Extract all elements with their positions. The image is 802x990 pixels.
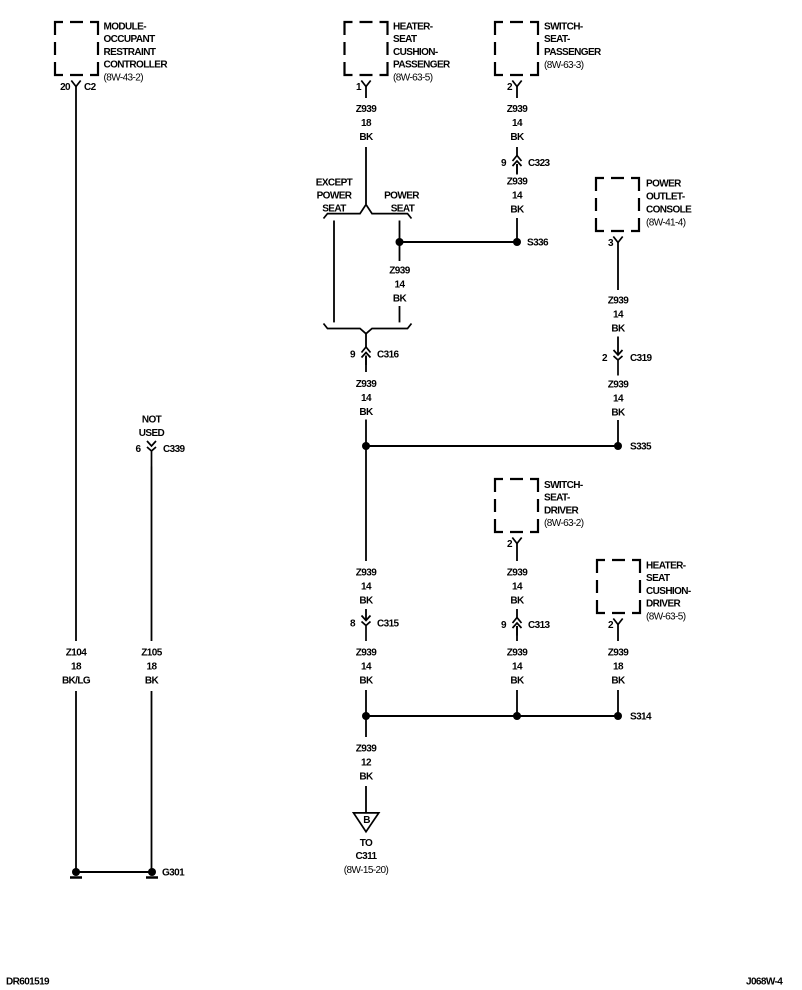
svg-text:S335: S335 xyxy=(630,442,652,453)
svg-text:18: 18 xyxy=(71,662,82,673)
wire xyxy=(516,690,518,716)
wire left branch xyxy=(333,221,335,323)
svg-text:Z939: Z939 xyxy=(356,568,377,579)
off-page connector triangle B xyxy=(354,813,379,832)
svg-text:USED: USED xyxy=(139,428,165,439)
svg-text:S314: S314 xyxy=(630,712,652,723)
svg-text:C319: C319 xyxy=(630,353,653,364)
wire xyxy=(516,609,518,618)
module - occupant restraint controller box xyxy=(55,22,98,75)
svg-text:CUSHION-: CUSHION- xyxy=(393,47,438,58)
svg-text:B: B xyxy=(363,815,370,826)
svg-text:PASSENGER: PASSENGER xyxy=(393,60,451,71)
svg-text:BK: BK xyxy=(510,132,525,143)
svg-text:HEATER-: HEATER- xyxy=(646,561,686,572)
connector C2 pin 20 xyxy=(71,81,80,87)
svg-text:(8W-15-20): (8W-15-20) xyxy=(344,865,389,876)
branch brace bottom xyxy=(324,324,412,334)
wire S314 horizontal xyxy=(366,715,618,717)
wire xyxy=(365,786,367,812)
svg-text:RESTRAINT: RESTRAINT xyxy=(104,47,156,58)
wire xyxy=(365,420,367,447)
svg-text:14: 14 xyxy=(613,310,624,321)
wire S336 horizontal xyxy=(400,241,518,243)
wire S335 horizontal xyxy=(366,445,618,447)
svg-text:Z939: Z939 xyxy=(356,104,377,115)
svg-text:C311: C311 xyxy=(356,851,378,862)
svg-text:BK: BK xyxy=(510,205,525,216)
svg-text:DR601519: DR601519 xyxy=(6,977,50,988)
connector C319 pin 2 xyxy=(614,350,623,376)
wire xyxy=(365,609,367,621)
svg-text:TO: TO xyxy=(360,838,373,849)
svg-text:18: 18 xyxy=(147,662,158,673)
branch brace top xyxy=(324,205,412,219)
svg-text:BK: BK xyxy=(393,294,408,305)
wire Z939 18 BK from heater passenger xyxy=(365,87,367,99)
svg-text:Z939: Z939 xyxy=(507,568,528,579)
svg-text:BK: BK xyxy=(359,772,374,783)
wire Z105 upper segment xyxy=(151,467,153,642)
svg-text:POWER: POWER xyxy=(317,191,353,202)
wire Z939 14 BK from switch driver xyxy=(516,544,518,562)
svg-text:BK: BK xyxy=(510,596,525,607)
svg-text:G301: G301 xyxy=(162,868,185,879)
svg-text:Z939: Z939 xyxy=(507,104,528,115)
wire xyxy=(399,306,401,322)
heater-seat cushion-passenger box xyxy=(345,22,388,75)
connector C339 pin 6 (not used) xyxy=(147,441,156,467)
svg-text:BK/LG: BK/LG xyxy=(62,676,91,687)
wire right branch below dot xyxy=(399,242,401,261)
svg-text:14: 14 xyxy=(361,393,372,404)
switch-seat-driver pin 2 xyxy=(512,538,521,544)
svg-text:SEAT-: SEAT- xyxy=(544,493,570,504)
svg-text:BK: BK xyxy=(611,676,626,687)
wire xyxy=(365,147,367,204)
wire Z939 18 BK from heater driver xyxy=(617,625,619,642)
svg-text:18: 18 xyxy=(613,662,624,673)
svg-text:Z939: Z939 xyxy=(608,380,629,391)
svg-text:Z939: Z939 xyxy=(356,379,377,390)
svg-text:CONTROLLER: CONTROLLER xyxy=(104,60,169,71)
svg-text:BK: BK xyxy=(145,676,160,687)
svg-text:Z939: Z939 xyxy=(608,296,629,307)
wire xyxy=(516,218,518,242)
wire Z104 lower segment xyxy=(75,691,77,872)
junction dot left S335 xyxy=(362,442,370,450)
svg-text:OUTLET-: OUTLET- xyxy=(646,192,685,203)
svg-text:BK: BK xyxy=(359,676,374,687)
svg-text:14: 14 xyxy=(361,582,372,593)
svg-text:POWER: POWER xyxy=(384,191,420,202)
wire xyxy=(617,690,619,716)
svg-text:14: 14 xyxy=(512,118,523,129)
svg-text:POWER: POWER xyxy=(646,179,682,190)
junction dot power seat branch xyxy=(396,238,404,246)
splice S335 xyxy=(614,442,622,450)
svg-text:BK: BK xyxy=(510,676,525,687)
svg-text:C313: C313 xyxy=(528,620,551,631)
svg-text:BK: BK xyxy=(611,324,626,335)
svg-text:DRIVER: DRIVER xyxy=(544,505,580,516)
svg-text:MODULE-: MODULE- xyxy=(104,22,147,33)
svg-text:(8W-43-2): (8W-43-2) xyxy=(104,73,144,84)
wire ground horizontal xyxy=(76,871,152,873)
svg-text:SWITCH-: SWITCH- xyxy=(544,480,583,491)
svg-text:J068W-4: J068W-4 xyxy=(746,977,783,988)
svg-text:14: 14 xyxy=(512,662,523,673)
power outlet-console box xyxy=(596,178,639,231)
svg-text:14: 14 xyxy=(361,662,372,673)
svg-text:BK: BK xyxy=(359,132,374,143)
svg-text:14: 14 xyxy=(395,280,406,291)
svg-text:Z939: Z939 xyxy=(356,744,377,755)
svg-text:(8W-63-3): (8W-63-3) xyxy=(544,60,584,71)
svg-text:SEAT-: SEAT- xyxy=(544,34,570,45)
svg-text:(8W-63-5): (8W-63-5) xyxy=(393,73,433,84)
svg-text:C2: C2 xyxy=(84,82,97,93)
heater-seat cushion-driver box xyxy=(597,560,640,613)
svg-text:Z939: Z939 xyxy=(608,648,629,659)
svg-text:NOT: NOT xyxy=(142,415,162,426)
connector C323 pin 9 xyxy=(513,156,522,174)
svg-text:C316: C316 xyxy=(377,350,400,361)
ground terminal right G301 xyxy=(146,868,158,878)
wire xyxy=(617,420,619,446)
svg-text:BK: BK xyxy=(611,408,626,419)
heater-seat cushion-passenger pin 1 xyxy=(361,81,370,87)
junction dot left S314 xyxy=(362,712,370,720)
svg-text:SEAT: SEAT xyxy=(646,573,670,584)
svg-text:SEAT: SEAT xyxy=(393,34,417,45)
svg-text:Z939: Z939 xyxy=(389,266,410,277)
connector C316 pin 9 xyxy=(362,347,371,365)
splice S314 xyxy=(614,712,622,720)
svg-text:18: 18 xyxy=(361,118,372,129)
svg-text:Z939: Z939 xyxy=(507,177,528,188)
heater-seat cushion-driver pin 2 xyxy=(613,619,622,625)
svg-text:20: 20 xyxy=(60,82,71,93)
svg-text:OCCUPANT: OCCUPANT xyxy=(104,34,156,45)
svg-text:Z104: Z104 xyxy=(66,648,87,659)
svg-text:CUSHION-: CUSHION- xyxy=(646,586,691,597)
wire right branch upper xyxy=(399,221,401,243)
wire below S314 xyxy=(365,716,367,737)
svg-text:C339: C339 xyxy=(163,444,186,455)
connector C313 pin 9 xyxy=(513,618,522,636)
wire xyxy=(516,147,518,156)
svg-text:PASSENGER: PASSENGER xyxy=(544,47,602,58)
connector C315 pin 8 xyxy=(362,616,371,642)
wire Z939 14 BK from switch passenger xyxy=(516,87,518,99)
svg-text:14: 14 xyxy=(512,191,523,202)
svg-text:CONSOLE: CONSOLE xyxy=(646,205,692,216)
switch-seat-passenger box xyxy=(495,22,538,75)
power outlet-console pin 3 xyxy=(613,237,622,243)
wire xyxy=(516,626,518,641)
svg-text:(8W-41-4): (8W-41-4) xyxy=(646,218,686,229)
svg-text:14: 14 xyxy=(512,582,523,593)
svg-text:Z939: Z939 xyxy=(507,648,528,659)
wire xyxy=(365,356,367,373)
svg-text:EXCEPT: EXCEPT xyxy=(316,178,353,189)
svg-text:SWITCH-: SWITCH- xyxy=(544,22,583,33)
svg-text:BK: BK xyxy=(359,407,374,418)
svg-text:C315: C315 xyxy=(377,619,400,630)
wire xyxy=(617,337,619,356)
switch-seat-passenger pin 2 xyxy=(512,81,521,87)
ground terminal left xyxy=(70,868,82,878)
svg-text:14: 14 xyxy=(613,394,624,405)
svg-text:(8W-63-5): (8W-63-5) xyxy=(646,611,686,622)
svg-text:DRIVER: DRIVER xyxy=(646,599,682,610)
svg-text:Z939: Z939 xyxy=(356,648,377,659)
wire below S335 xyxy=(365,446,367,561)
wire Z104 upper segment xyxy=(75,87,77,642)
switch-seat-driver box xyxy=(495,479,538,532)
splice S336 xyxy=(513,238,521,246)
svg-text:(8W-63-2): (8W-63-2) xyxy=(544,518,584,529)
svg-text:HEATER-: HEATER- xyxy=(393,22,433,33)
wire Z105 lower segment xyxy=(151,691,153,872)
junction dot middle S314 xyxy=(513,712,521,720)
wire xyxy=(516,164,518,175)
wire Z939 14 BK from power outlet xyxy=(617,243,619,291)
svg-text:S336: S336 xyxy=(527,238,549,249)
wire xyxy=(365,690,367,716)
svg-text:12: 12 xyxy=(361,758,372,769)
svg-text:BK: BK xyxy=(359,596,374,607)
svg-text:Z105: Z105 xyxy=(141,648,162,659)
svg-text:C323: C323 xyxy=(528,158,551,169)
wire below brace xyxy=(365,334,367,347)
